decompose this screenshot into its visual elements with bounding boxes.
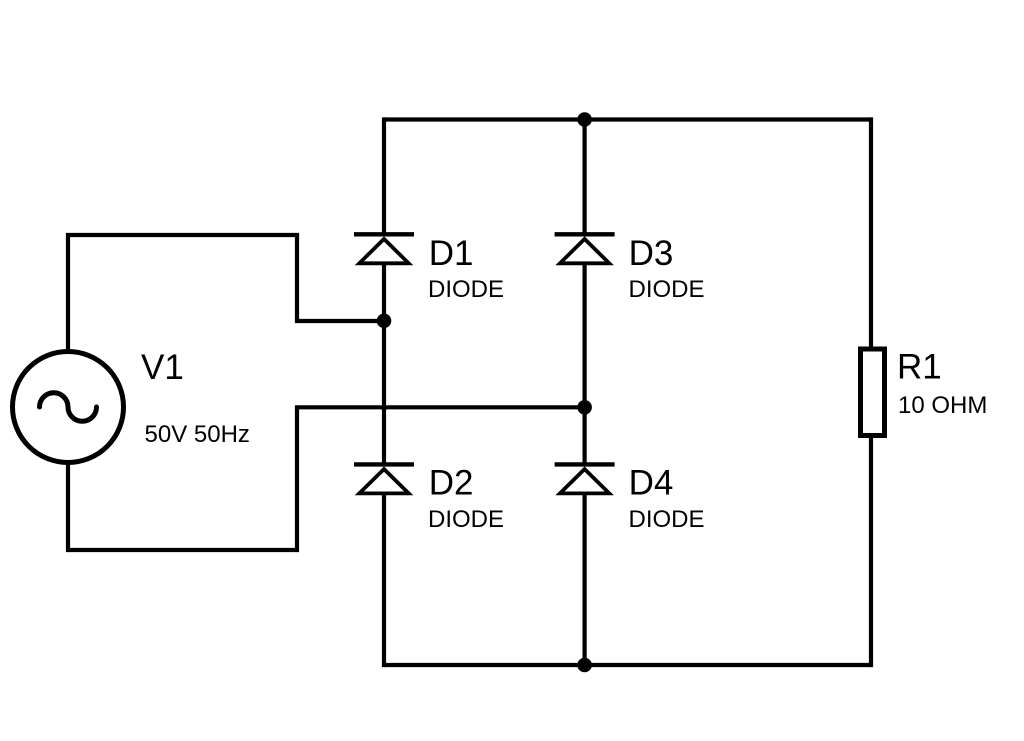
diode D3 — [555, 234, 615, 265]
wire D1-D2 branch — [382, 265, 386, 467]
wire bottom rail — [384, 663, 871, 667]
svg-text:D1: D1 — [429, 234, 474, 273]
diode D1 — [354, 234, 414, 265]
svg-text:DIODE: DIODE — [629, 276, 705, 303]
svg-text:D3: D3 — [629, 234, 674, 273]
wire R1 top lead — [869, 117, 873, 347]
wire top rail — [384, 117, 871, 121]
wire D2 lead to bottom rail — [382, 495, 386, 668]
wire D1 anode lead — [382, 117, 386, 236]
svg-text:D2: D2 — [429, 464, 474, 503]
svg-text:R1: R1 — [897, 348, 942, 387]
resistor R1 — [861, 349, 885, 436]
wire D3 lead from top rail — [582, 117, 586, 236]
wire V1 top loop — [68, 235, 384, 350]
svg-text:10 OHM: 10 OHM — [898, 392, 987, 419]
node junction D1-D2 (V1 tap) — [377, 314, 392, 329]
svg-text:D4: D4 — [629, 464, 674, 503]
AC source V1 — [13, 352, 124, 463]
svg-text:V1: V1 — [141, 348, 184, 387]
node junction D3-D4 (V1 tap) — [577, 400, 592, 415]
svg-text:50V 50Hz: 50V 50Hz — [145, 421, 250, 448]
node junction top rail / D3 — [577, 112, 592, 127]
diode D2 — [354, 464, 414, 495]
wire R1 bottom lead — [869, 438, 873, 668]
svg-text:DIODE: DIODE — [428, 276, 504, 303]
svg-text:DIODE: DIODE — [629, 506, 705, 533]
diode D4 — [555, 464, 615, 495]
wire V1 bottom loop — [68, 407, 585, 550]
svg-text:DIODE: DIODE — [428, 506, 504, 533]
node junction bottom rail / D4 — [577, 658, 592, 673]
wire D3-D4 branch — [582, 265, 586, 467]
wire D4 lead to bottom rail — [582, 495, 586, 668]
